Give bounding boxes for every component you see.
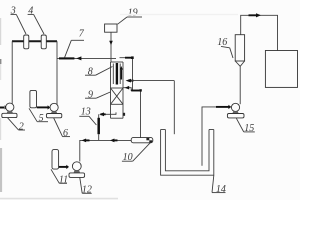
svg-text:12: 12 (82, 185, 92, 196)
reactor X-box bottom (111, 103, 124, 105)
up arrow in annulus (120, 66, 123, 70)
svg-text:2: 2 (19, 121, 24, 132)
svg-text:4: 4 (28, 6, 33, 17)
tank 14 right dip tube (202, 107, 231, 166)
label 2 (7, 118, 18, 130)
svg-text:11: 11 (59, 175, 68, 186)
tank 1 top edge (bold) (12, 40, 57, 42)
tank 1 left wall (11, 41, 13, 104)
svg-text:9: 9 (88, 89, 93, 100)
scan artifact: faint top band (120, 14, 238, 16)
arrow into pump 15 (216, 106, 229, 108)
tank 14 left dip tube (173, 81, 175, 135)
reactor bottom outlet (100, 113, 116, 115)
draft tube 8 (bold bar) (116, 63, 118, 85)
pipe down to vessel 10 (140, 91, 142, 138)
pump 2 (0, 107, 4, 109)
draft tube wall right (119, 64, 121, 85)
label 11 (51, 169, 59, 183)
svg-text:8: 8 (88, 66, 93, 77)
recycle loop bottom jog into reactor (123, 88, 141, 91)
vessel 11 (52, 150, 59, 170)
svg-text:15: 15 (244, 123, 254, 134)
valve 4 (41, 35, 46, 49)
valve 3 (24, 35, 29, 49)
tank 14 inner wall (165, 130, 209, 171)
scan artifact: bottom edge (0, 198, 118, 200)
scan artifact: left edge (0, 18, 2, 45)
tank 14 outer wall (161, 130, 214, 176)
valve 13 (bold bar) (98, 114, 100, 118)
pipe from tank 14 dip tube into reactor (left arrow) (126, 79, 131, 83)
pipe arrow vessel11 to pump12 (59, 166, 67, 168)
reactor 8/9 outer shell (111, 61, 124, 63)
label 6 (54, 118, 63, 137)
recycle loop top elbow (120, 58, 133, 91)
svg-text:3: 3 (10, 6, 16, 17)
box 19 (105, 24, 117, 32)
pipe pump 15 up to column 16 (239, 66, 241, 104)
reactor X diagonals (111, 88, 124, 104)
pump 15 (231, 103, 239, 111)
svg-text:6: 6 (63, 128, 68, 139)
svg-text:5: 5 (39, 113, 44, 124)
pipe 7 (reactor to tank 1) (57, 57, 116, 59)
label 14 (212, 175, 214, 192)
pipe arrow vessel5 to pump6 (37, 106, 48, 108)
column 16 (235, 35, 244, 61)
reactor divider (X-box top) (111, 87, 124, 89)
tank 14 wall caps (161, 129, 166, 131)
bottom pipe to pump 12 (80, 140, 132, 161)
pipe column 16 to box 17 (241, 15, 278, 50)
stub on reactor right wall (123, 113, 125, 116)
vessel 10 (131, 138, 153, 143)
label 12 (80, 178, 82, 194)
svg-text:14: 14 (216, 184, 226, 195)
pump 6 (50, 103, 58, 111)
pipe from box 19 down (110, 32, 112, 62)
tank 1 right wall (56, 41, 58, 104)
vessel 5 (30, 90, 37, 107)
pump 12 (72, 162, 81, 171)
label 15 (236, 118, 243, 132)
draft tube wall left (112, 64, 114, 85)
box 17 (265, 51, 297, 88)
label 5 (29, 108, 37, 121)
